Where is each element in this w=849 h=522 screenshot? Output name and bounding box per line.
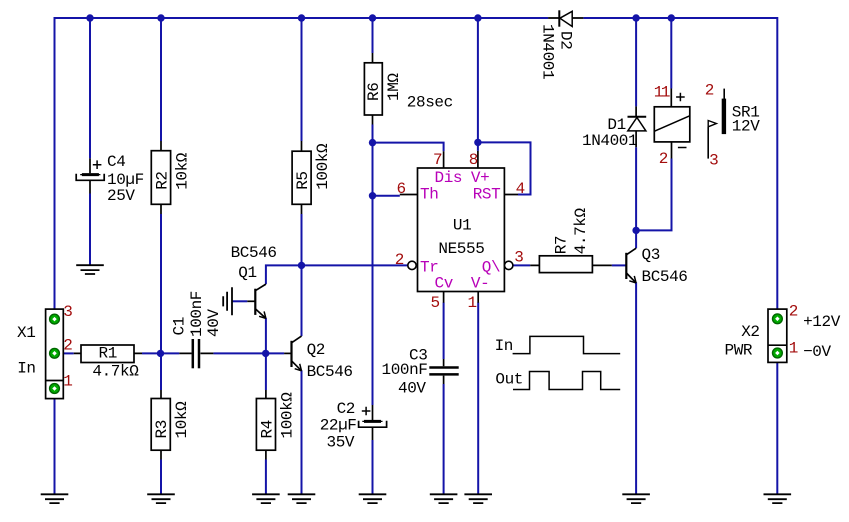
svg-text:28sec: 28sec — [407, 93, 453, 111]
svg-text:In: In — [17, 359, 35, 377]
svg-text:2: 2 — [63, 336, 72, 354]
connector X2 pad 2 — [773, 314, 783, 324]
wire Q2 collector to node C — [301, 265, 303, 336]
svg-text:5: 5 — [431, 294, 440, 312]
svg-text:BC546: BC546 — [231, 244, 277, 262]
svg-text:22µF: 22µF — [320, 417, 357, 435]
wire U1 Cv pin 5 to C3 — [443, 303, 445, 360]
wire node G to SR1 coil pin 2 — [636, 159, 671, 231]
relay SR1 contact — [708, 89, 726, 159]
svg-text:10kΩ: 10kΩ — [173, 152, 191, 190]
resistor R4 — [256, 390, 275, 460]
ground under C4 — [76, 265, 104, 274]
svg-text:4.7kΩ: 4.7kΩ — [572, 207, 590, 254]
junction rail R5 — [298, 14, 305, 21]
ground under R4 — [252, 494, 280, 503]
wire node F to U1 RST pin 4 loop — [478, 142, 531, 194]
connector X1 pad 3 — [50, 314, 60, 324]
svg-text:−0V: −0V — [803, 343, 831, 361]
svg-text:6: 6 — [397, 180, 406, 198]
svg-text:1: 1 — [789, 339, 798, 357]
wire R1 to node A — [142, 352, 161, 354]
connector X1 pad 1 — [50, 384, 60, 394]
svg-text:2: 2 — [395, 251, 404, 269]
svg-text:R1: R1 — [99, 345, 117, 363]
capacitor C2 — [359, 407, 387, 428]
resistor R5 — [292, 141, 311, 214]
resistor R1 — [74, 345, 142, 363]
wire C2 minus to ground — [372, 440, 374, 495]
wire X1 pin 2 to R1 — [63, 352, 73, 354]
resistor R2 — [151, 141, 170, 214]
capacitor C1 — [179, 339, 213, 368]
ground under Q2 — [288, 494, 316, 503]
wire C1 to node B — [213, 352, 265, 354]
svg-text:BC546: BC546 — [307, 363, 353, 381]
wire right rail to X2 pin 2 — [776, 17, 778, 319]
wire R4 bottom to ground — [265, 460, 267, 495]
ground under R3 — [147, 494, 175, 503]
Out waveform — [513, 372, 620, 390]
wire rail to R2 top — [160, 18, 162, 141]
svg-text:25V: 25V — [107, 187, 135, 205]
wire node E to U1 Th pin 6 — [373, 195, 400, 197]
svg-text:Q3: Q3 — [642, 246, 660, 264]
wire node C to U1 Tr pin 2 — [302, 264, 408, 266]
wire node D to U1 Dis pin 7 — [373, 143, 444, 152]
svg-text:V+: V+ — [471, 169, 489, 187]
svg-text:1: 1 — [63, 373, 72, 391]
transistor Q1 — [247, 284, 266, 318]
svg-text:7: 7 — [433, 151, 442, 169]
wire U1 Q pin 3 to R7 — [513, 264, 530, 266]
junction node D Dis — [369, 139, 376, 146]
svg-text:V-: V- — [471, 275, 489, 293]
capacitor C2 pin stubs — [372, 405, 374, 440]
svg-text:Dis: Dis — [435, 169, 463, 187]
junction rail C4 — [86, 14, 93, 21]
ground under U1 V- — [464, 494, 492, 503]
ground under Q3 — [622, 494, 650, 503]
svg-text:Cv: Cv — [435, 275, 454, 293]
ground under C2 — [359, 494, 387, 503]
connector X1 body — [46, 309, 64, 399]
ground under X1 — [41, 494, 69, 503]
wire node A to C1 — [161, 352, 180, 354]
svg-text:1: 1 — [468, 294, 477, 312]
junction node A — [157, 350, 164, 357]
wire rail to R5 top — [301, 18, 303, 141]
wire node B to R4 top — [265, 353, 267, 390]
svg-text:100nF: 100nF — [382, 361, 428, 379]
resistor R6 — [364, 53, 382, 125]
wire C3 to ground — [443, 384, 445, 495]
diode D1 — [628, 106, 647, 147]
svg-text:R3: R3 — [153, 420, 171, 438]
svg-text:D2: D2 — [557, 31, 575, 49]
wire R2 bottom to node A to R3 top — [160, 214, 162, 390]
junction rail SR1 coil — [668, 14, 675, 21]
svg-text:R4: R4 — [258, 420, 276, 438]
svg-text:PWR: PWR — [725, 342, 753, 360]
svg-text:Q1: Q1 — [238, 264, 256, 282]
wire Q3 emitter to ground — [635, 282, 637, 494]
wire ground to Q1 base — [232, 300, 247, 302]
op-amp U1 NE555 box — [400, 151, 518, 303]
resistor R7 — [530, 256, 612, 273]
transistor Q3 — [626, 248, 636, 283]
svg-text:R5: R5 — [294, 171, 312, 189]
svg-text:+12V: +12V — [803, 313, 841, 331]
svg-text:C1: C1 — [170, 317, 188, 335]
svg-text:3: 3 — [709, 151, 718, 169]
svg-text:C2: C2 — [337, 400, 355, 418]
junction rail D1 — [632, 14, 639, 21]
svg-text:R6: R6 — [365, 83, 383, 101]
ground under X2 — [764, 494, 792, 503]
svg-text:4: 4 — [516, 180, 525, 198]
transistor Q2 — [284, 336, 301, 371]
svg-text:3: 3 — [514, 249, 523, 267]
svg-text:2: 2 — [789, 302, 798, 320]
capacitor C4 pin stubs — [89, 158, 91, 193]
svg-text:1N4001: 1N4001 — [582, 132, 637, 150]
ground at Q1 base rotated — [223, 287, 232, 315]
svg-text:X1: X1 — [17, 324, 35, 342]
svg-text:Q2: Q2 — [307, 341, 325, 359]
wire Q3 collector to node G — [635, 230, 637, 248]
svg-text:Th: Th — [420, 185, 438, 203]
U1 pin 2 inversion bubble — [408, 261, 416, 269]
wire R5 bottom to node C — [301, 214, 303, 265]
junction node F V+/RST — [474, 139, 481, 146]
wire node B to Q2 base — [266, 352, 284, 354]
relay SR1 coil — [654, 89, 690, 159]
wire X2 pin 1 to ground — [776, 353, 778, 495]
wire R6 bottom through node D and node E to C2 plus — [372, 125, 374, 406]
svg-text:35V: 35V — [327, 434, 355, 452]
svg-text:1MΩ: 1MΩ — [385, 73, 403, 101]
junction rail R6 — [369, 14, 376, 21]
svg-text:100kΩ: 100kΩ — [278, 392, 296, 439]
wire C4 minus to ground — [89, 194, 91, 266]
connector X2 body — [768, 309, 787, 362]
svg-text:NE555: NE555 — [438, 240, 484, 258]
wire R3 bottom to ground — [160, 460, 162, 495]
wire Q1 emitter to node B — [265, 318, 267, 353]
svg-text:2: 2 — [659, 150, 668, 168]
wire +12V top rail left of D2 — [55, 17, 549, 19]
junction node G Q3 collector — [632, 227, 639, 234]
junction node C Tr — [298, 262, 305, 269]
svg-text:11: 11 — [654, 84, 670, 102]
wire rail to R6 top — [372, 18, 374, 53]
connector X2 pad 1 — [773, 348, 783, 358]
svg-text:1N4001: 1N4001 — [539, 24, 557, 79]
svg-text:100nF: 100nF — [188, 291, 206, 337]
wire left rail down to X1 pin 3 — [54, 17, 56, 319]
wire +12V top rail right of D2 — [583, 17, 777, 19]
svg-text:U1: U1 — [453, 217, 471, 235]
svg-text:40V: 40V — [205, 309, 223, 337]
junction rail R2 — [157, 14, 164, 21]
svg-text:Out: Out — [495, 370, 523, 388]
svg-text:10kΩ: 10kΩ — [173, 401, 191, 439]
svg-text:R2: R2 — [153, 171, 171, 189]
wire R7 to Q3 base — [612, 264, 627, 266]
wire rail to D1 cathode — [635, 18, 637, 106]
svg-text:3: 3 — [63, 303, 72, 321]
svg-text:2: 2 — [705, 82, 714, 100]
svg-text:BC546: BC546 — [642, 268, 688, 286]
svg-text:In: In — [495, 337, 513, 355]
svg-text:C4: C4 — [107, 153, 125, 171]
capacitor C4 — [76, 160, 104, 180]
svg-text:R7: R7 — [553, 236, 571, 254]
junction node B — [262, 350, 269, 357]
capacitor C3 — [429, 359, 458, 384]
resistor R3 — [151, 390, 170, 460]
junction node E Th — [369, 192, 376, 199]
junction rail V+ column — [474, 14, 481, 21]
svg-text:8: 8 — [469, 151, 478, 169]
svg-text:X2: X2 — [741, 323, 759, 341]
wire rail to C4 plus — [89, 18, 91, 158]
ground under C3 — [430, 494, 458, 503]
wire Q2 emitter to ground — [301, 370, 303, 494]
svg-text:40V: 40V — [398, 380, 426, 398]
svg-text:12V: 12V — [732, 117, 760, 135]
wire X1 pin 1 to ground — [54, 389, 56, 495]
diode D2 — [548, 10, 583, 26]
U1 pin 3 inversion bubble — [505, 261, 513, 269]
connector X1 pad 2 — [50, 348, 60, 358]
In waveform — [513, 336, 621, 353]
svg-text:100kΩ: 100kΩ — [314, 143, 332, 190]
wire rail to SR1 coil pin 11 — [670, 18, 672, 89]
wire D1 anode to node G — [635, 147, 637, 230]
wire U1 V- pin 1 to ground — [477, 303, 479, 495]
svg-text:RST: RST — [473, 185, 501, 203]
wire rail to U1 V+ pin 8 — [477, 18, 479, 151]
wire Q1 collector to node C — [266, 265, 302, 284]
svg-text:4.7kΩ: 4.7kΩ — [92, 362, 139, 380]
